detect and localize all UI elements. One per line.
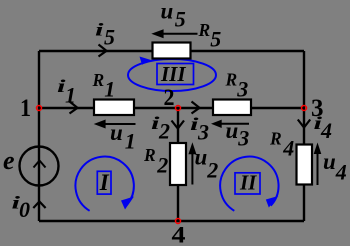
resistor R5 [153,43,191,59]
current arrow i3 [192,102,200,114]
wire middle vertical (node2-node4) [177,108,179,221]
svg-text:II: II [239,171,257,195]
resistor R4 [297,145,313,185]
loop I arrow (blue circle) [75,157,133,211]
svg-text:1: 1 [20,95,31,122]
loop I label box [97,171,111,194]
voltage arrow u4 [317,152,319,185]
node 1 [37,106,42,111]
node 2 [176,106,181,111]
resistor R2 [170,143,186,185]
wire left branch (with source e) [38,51,40,221]
voltage arrow u2 [191,152,193,185]
voltage arrow u3 [220,123,249,125]
svg-text:4: 4 [172,223,186,246]
svg-text:III: III [160,62,186,86]
voltage arrow u5 [162,33,198,35]
loop II label box [235,173,260,194]
loop II arrow (blue circle) [220,157,278,211]
node 3 [302,106,307,111]
loop III label box [157,64,194,85]
svg-text:I: I [99,170,110,195]
wire right branch (node3 down) [303,51,305,221]
svg-text:e: e [3,146,15,175]
wire middle branch (node1-node2-node3) [39,107,304,109]
current arrow i4 [298,120,310,128]
current arrow i1 [70,102,78,114]
current arrow i5 [99,45,107,57]
current arrow i2 [172,121,185,129]
wire top branch (node1 to node3 via R5) [39,50,304,52]
svg-text:2: 2 [164,85,175,110]
resistor R3 [213,100,251,116]
loop III arrow (blue ellipse, passes behind R5) [128,59,216,91]
wire bottom branch [39,220,304,222]
current arrow i0 [33,202,45,209]
resistor R1 [94,100,134,116]
voltage source e internal arrow [34,161,46,168]
node 4 [176,219,181,224]
voltage source e (circle) [20,147,59,186]
voltage arrow u1 [104,123,136,125]
